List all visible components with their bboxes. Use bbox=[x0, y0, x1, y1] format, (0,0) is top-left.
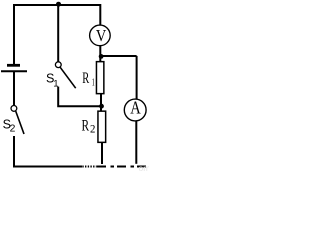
node top junction bbox=[56, 2, 61, 7]
resistor R2 box bbox=[98, 111, 106, 142]
wire voltmeter to node bbox=[99, 46, 101, 57]
svg-text:V: V bbox=[96, 26, 107, 45]
wire down to ammeter bbox=[136, 56, 138, 99]
wire below S2 to bottom bbox=[13, 136, 15, 167]
switch S2 pivot circle bbox=[11, 106, 17, 112]
wire bottom dashed section bbox=[97, 166, 146, 168]
node below voltmeter bbox=[99, 54, 104, 59]
wire below ammeter to bottom bbox=[135, 121, 137, 164]
wire bottom solid bbox=[13, 166, 82, 168]
battery positive plate long thin bbox=[1, 70, 27, 72]
wire top horizontal bbox=[13, 4, 100, 6]
wire battery to switch S2 bbox=[13, 72, 15, 106]
resistor R1 box bbox=[96, 62, 103, 94]
svg-text:1: 1 bbox=[92, 77, 95, 89]
wire node to ammeter branch right horizontal bbox=[101, 55, 137, 57]
wire top-right corner down to voltmeter bbox=[99, 4, 101, 25]
svg-text:R: R bbox=[82, 117, 90, 134]
svg-text:2: 2 bbox=[90, 122, 95, 136]
switch S2 blade bbox=[16, 111, 24, 134]
svg-text:2: 2 bbox=[10, 124, 16, 135]
svg-text:R: R bbox=[82, 70, 89, 87]
wire junction down to S1 bbox=[57, 5, 59, 62]
wire R2 to bottom bbox=[101, 142, 103, 164]
wire R1 to node bbox=[100, 94, 102, 111]
wire below S1 down and right to R1-R2 node bbox=[58, 87, 101, 107]
switch S1 pivot circle bbox=[55, 62, 61, 68]
battery negative plate short thick bbox=[7, 64, 20, 67]
svg-text:om: om bbox=[139, 163, 150, 171]
wire node to R1 bbox=[99, 56, 101, 62]
wire left vertical top to battery bbox=[13, 4, 15, 64]
wire bottom dotted section bbox=[82, 166, 97, 168]
svg-text:A: A bbox=[130, 98, 141, 118]
switch S1 blade bbox=[60, 67, 75, 88]
node R1-R2 junction bbox=[99, 104, 104, 109]
ammeter A bbox=[124, 99, 146, 121]
voltmeter V bbox=[90, 25, 111, 46]
